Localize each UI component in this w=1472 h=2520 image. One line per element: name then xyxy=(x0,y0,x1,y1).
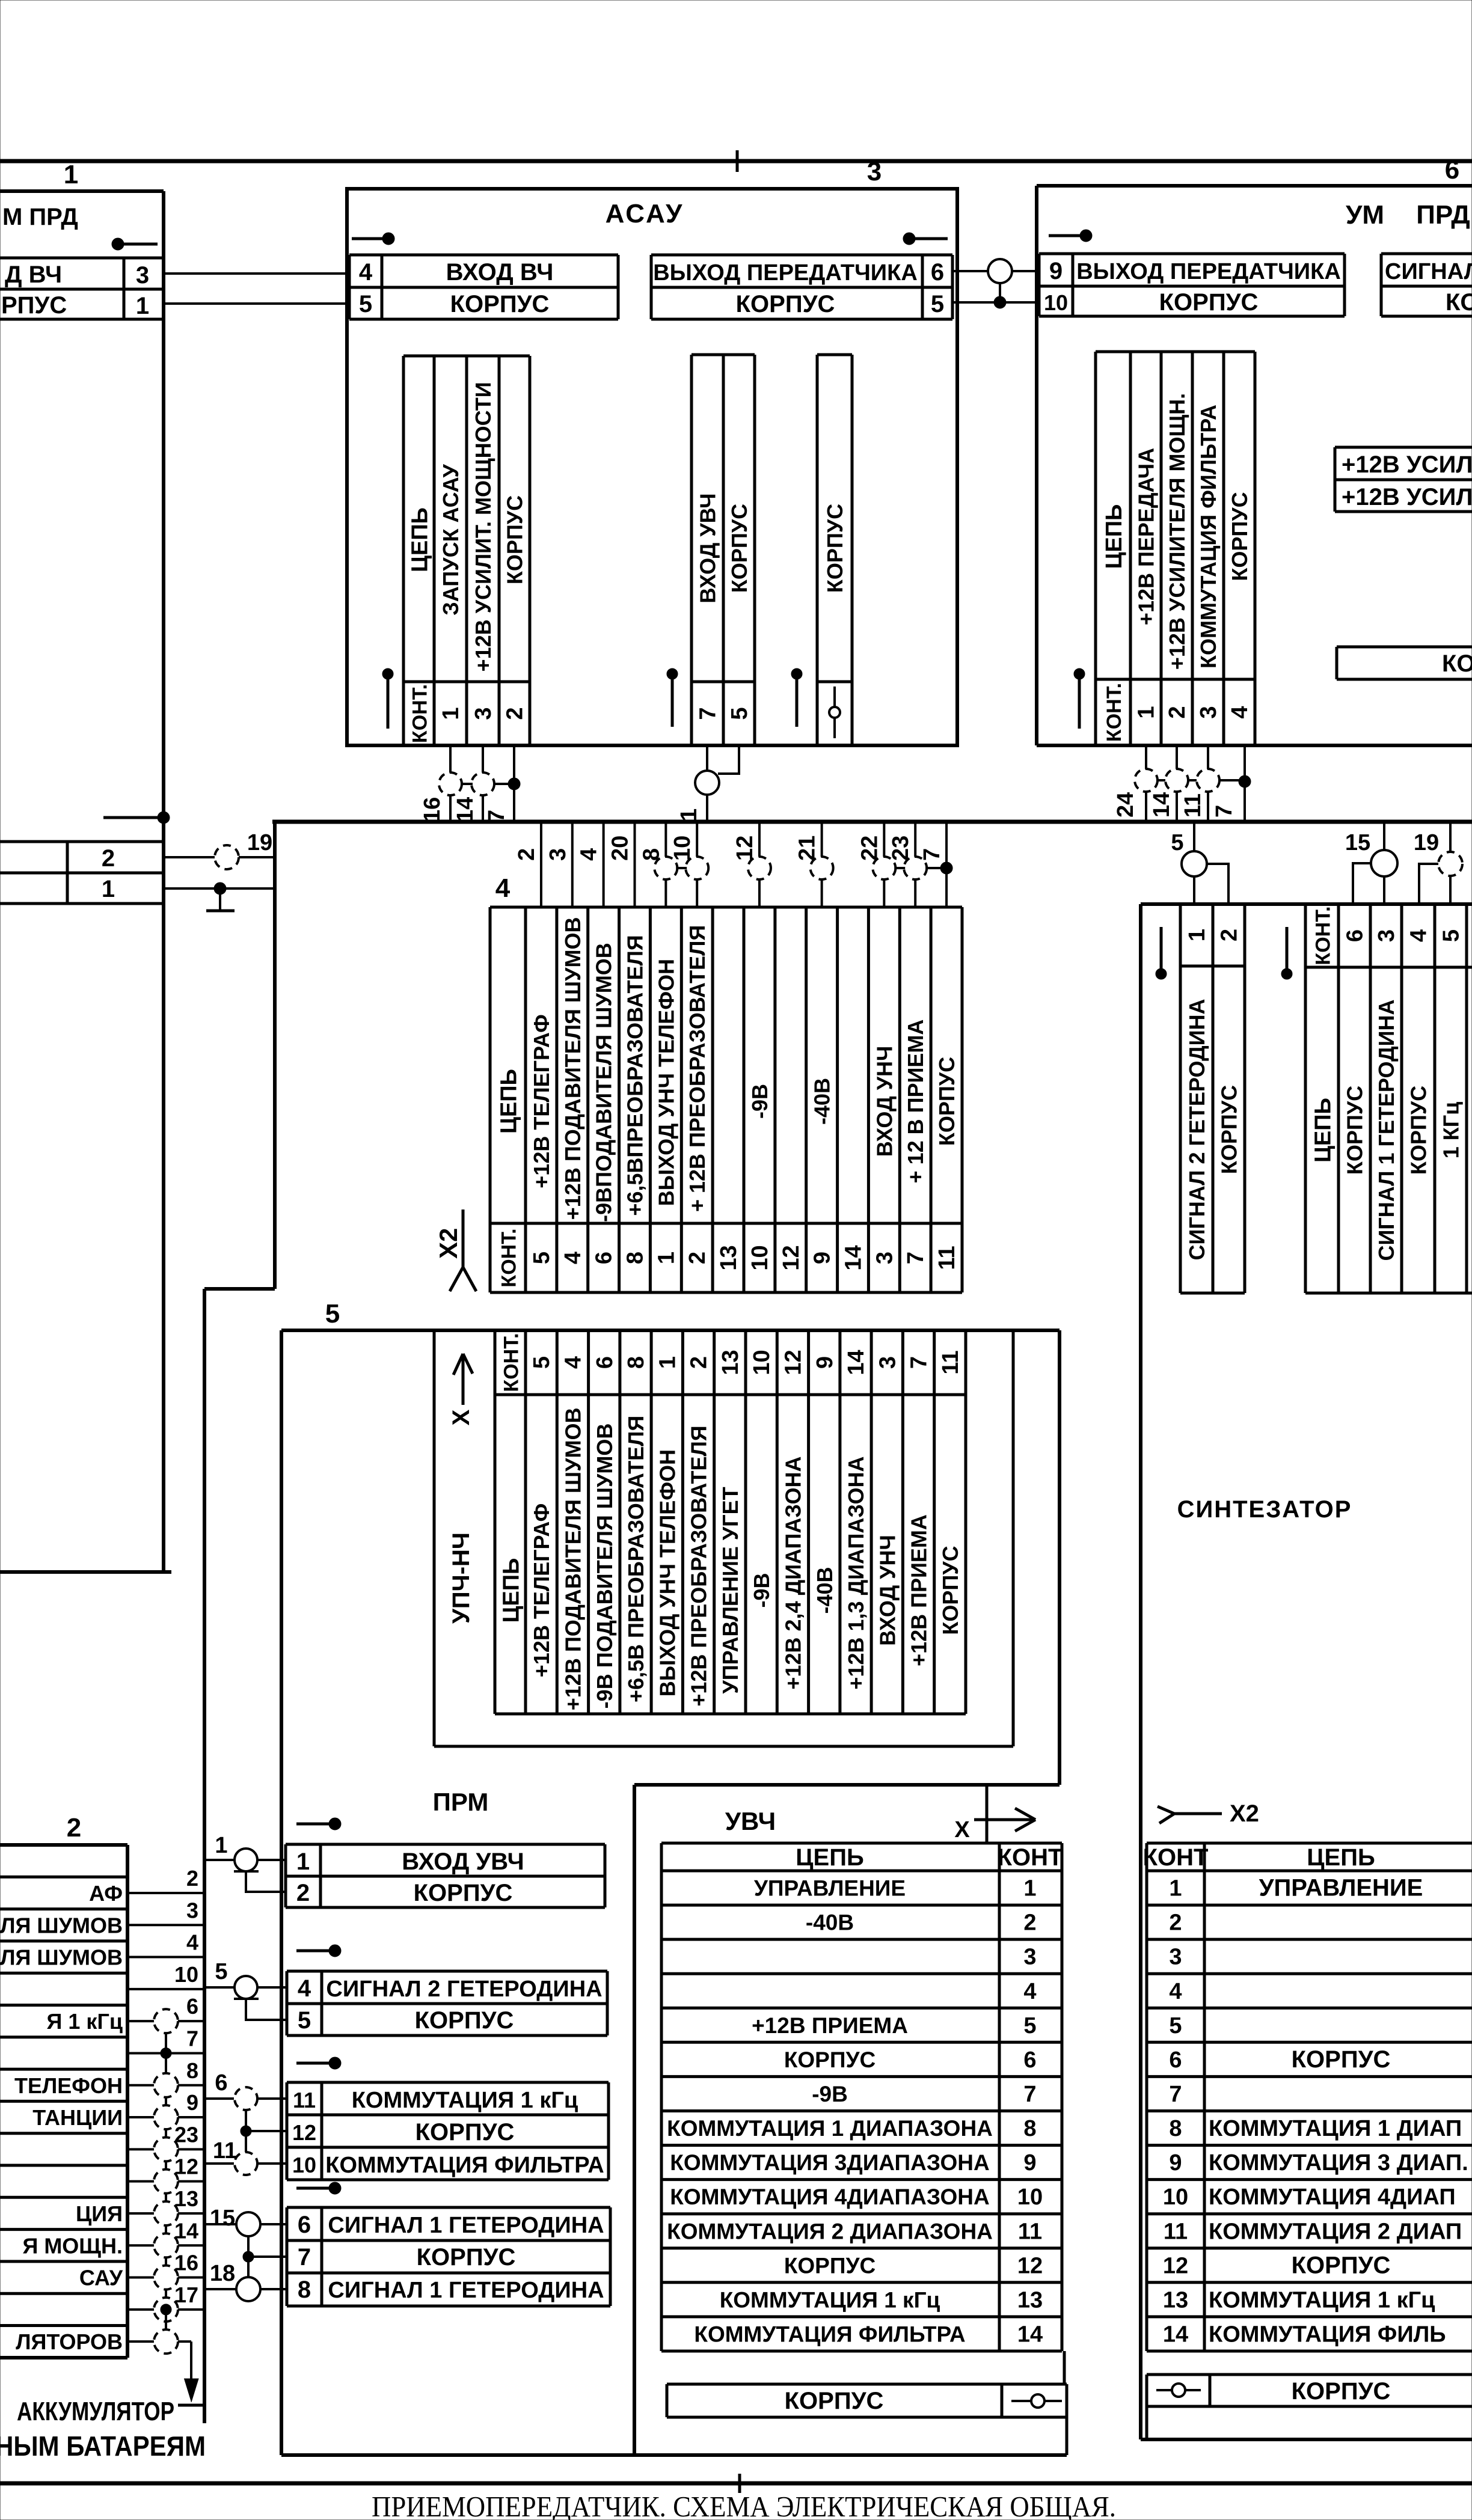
svg-text:6: 6 xyxy=(1445,155,1459,185)
svg-text:X: X xyxy=(448,1409,474,1425)
svg-text:9: 9 xyxy=(812,1356,838,1369)
svg-text:7: 7 xyxy=(919,848,945,861)
svg-text:18: 18 xyxy=(210,2261,235,2286)
wire ACAY pin6 to UM pin9 with connector circle xyxy=(952,270,988,272)
block 4 left edge lower xyxy=(203,1289,206,2423)
svg-text:НЫМ БАТАРЕЯМ: НЫМ БАТАРЕЯМ xyxy=(0,2430,206,2462)
svg-text:6: 6 xyxy=(1343,929,1368,942)
svg-text:24: 24 xyxy=(1113,792,1138,818)
block 1 lower connector rows xyxy=(0,840,164,843)
svg-text:1: 1 xyxy=(654,1252,679,1264)
svg-text:КОММУТАЦИЯ 1 кГц: КОММУТАЦИЯ 1 кГц xyxy=(720,2287,940,2312)
UVCH box left edge xyxy=(633,1785,636,2455)
svg-text:13: 13 xyxy=(1017,2287,1043,2313)
svg-text:13: 13 xyxy=(718,1350,743,1375)
svg-text:УВЧ: УВЧ xyxy=(725,1807,776,1835)
svg-text:КОРПУС: КОРПУС xyxy=(784,2047,876,2072)
svg-text:7: 7 xyxy=(1023,2082,1036,2107)
svg-text:КОРПУС: КОРПУС xyxy=(1159,289,1259,316)
svg-text:ВХОД УНЧ: ВХОД УНЧ xyxy=(872,1046,897,1157)
svg-text:ВЫХОД ПЕРЕДАТЧИКА: ВЫХОД ПЕРЕДАТЧИКА xyxy=(653,260,918,286)
svg-text:КОММУТАЦИЯ 2 ДИАП: КОММУТАЦИЯ 2 ДИАП xyxy=(1209,2219,1462,2244)
svg-text:-9В: -9В xyxy=(749,1573,774,1607)
svg-text:Д ВЧ: Д ВЧ xyxy=(5,261,62,288)
svg-text:КОРПУС: КОРПУС xyxy=(417,2244,516,2271)
bus wire 20 xyxy=(634,822,636,907)
svg-text:+12В ПРИЕМА: +12В ПРИЕМА xyxy=(907,1514,931,1666)
svg-text:КОММУТАЦИЯ ФИЛЬТРА: КОММУТАЦИЯ ФИЛЬТРА xyxy=(694,2322,965,2346)
svg-text:КОНТ: КОНТ xyxy=(1143,1844,1209,1871)
blk4 table frame xyxy=(490,906,962,909)
svg-text:3: 3 xyxy=(186,1898,198,1922)
svg-text:7: 7 xyxy=(1212,805,1237,818)
UVCH box corner xyxy=(986,1785,989,1843)
block2 accumulator wire xyxy=(165,2315,167,2329)
svg-text:10: 10 xyxy=(1044,290,1068,315)
block 1 outline xyxy=(0,189,164,193)
svg-text:КОММУТАЦИЯ 1 кГц: КОММУТАЦИЯ 1 кГц xyxy=(1209,2287,1435,2313)
svg-text:4: 4 xyxy=(495,873,511,903)
svg-text:14: 14 xyxy=(1163,2322,1188,2347)
svg-text:УМ: УМ xyxy=(1346,200,1384,230)
svg-text:+12В ПРЕОБРАЗОВАТЕЛЯ: +12В ПРЕОБРАЗОВАТЕЛЯ xyxy=(687,1425,711,1706)
svg-text:КОРПУС: КОРПУС xyxy=(416,2119,515,2145)
svg-text:13: 13 xyxy=(174,2186,198,2211)
svg-text:7: 7 xyxy=(186,2026,198,2051)
svg-text:КОРПУС: КОРПУС xyxy=(785,2388,884,2414)
synthB table frame xyxy=(1305,903,1467,906)
svg-text:5: 5 xyxy=(359,291,372,317)
svg-text:КОРПУС: КОРПУС xyxy=(1227,492,1252,581)
ACAY v2 cable mark xyxy=(667,668,678,679)
svg-text:КОММУТАЦИЯ ФИЛЬТРА: КОММУТАЦИЯ ФИЛЬТРА xyxy=(325,2153,604,2178)
svg-text:2: 2 xyxy=(1023,1910,1036,1936)
bus wire 8 xyxy=(664,822,667,907)
UM КОРПУС box (cut right) xyxy=(1337,646,1472,649)
svg-text:КОРПУС: КОРПУС xyxy=(736,291,835,317)
svg-text:КОНТ.: КОНТ. xyxy=(1312,906,1335,965)
svg-text:5: 5 xyxy=(931,291,944,317)
svg-text:ЦЕПЬ: ЦЕПЬ xyxy=(1311,1098,1336,1163)
svg-text:КОРПУС: КОРПУС xyxy=(1442,650,1472,677)
svg-text:14: 14 xyxy=(841,1245,866,1270)
svg-text:9: 9 xyxy=(810,1252,835,1264)
svg-text:1: 1 xyxy=(102,876,115,902)
svg-text:17: 17 xyxy=(174,2283,198,2307)
svg-text:13: 13 xyxy=(716,1245,741,1270)
UM +12V boxes (cut right) xyxy=(1335,446,1472,449)
PRM table 1 xyxy=(286,1843,605,1846)
svg-text:5: 5 xyxy=(727,707,752,720)
svg-text:КОРПУС: КОРПУС xyxy=(414,1880,513,1906)
svg-text:ЛЯТОРОВ: ЛЯТОРОВ xyxy=(16,2329,123,2354)
svg-text:1 КГц: 1 КГц xyxy=(1439,1102,1464,1159)
ACAY v1 table frame xyxy=(403,355,530,358)
block 5 outline right xyxy=(1058,1330,1061,1785)
svg-text:+12В УСИЛИ: +12В УСИЛИ xyxy=(1342,451,1472,478)
block2 wire 4 xyxy=(127,1956,204,1959)
svg-text:11: 11 xyxy=(213,2138,237,2164)
svg-text:+12В ПРИЕМА: +12В ПРИЕМА xyxy=(752,2013,908,2038)
svg-text:11: 11 xyxy=(1180,794,1206,818)
svg-text:УПРАВЛЕНИЕ: УПРАВЛЕНИЕ xyxy=(754,1876,906,1901)
PRM table 2 xyxy=(287,1970,607,1973)
svg-text:+12В ПЕРЕДАЧА: +12В ПЕРЕДАЧА xyxy=(1134,448,1159,625)
svg-text:11: 11 xyxy=(938,1350,963,1374)
svg-text:ВЫХОД УНЧ ТЕЛЕФОН: ВЫХОД УНЧ ТЕЛЕФОН xyxy=(655,1449,679,1696)
svg-text:1: 1 xyxy=(655,1356,680,1369)
svg-text:19: 19 xyxy=(1414,830,1439,855)
synth connector table xyxy=(1147,1842,1472,1845)
bus wire 2 xyxy=(540,822,542,907)
svg-text:СИГНАЛ 1 ГЕТЕРОДИНА: СИГНАЛ 1 ГЕТЕРОДИНА xyxy=(1374,999,1399,1261)
svg-text:КОММУТАЦИЯ 4ДИАПАЗОНА: КОММУТАЦИЯ 4ДИАПАЗОНА xyxy=(670,2185,990,2209)
UVCH KORPUS bottom box xyxy=(667,2383,1067,2386)
svg-text:КОРПУС: КОРПУС xyxy=(1343,1086,1367,1175)
svg-text:ЦЕПЬ: ЦЕПЬ xyxy=(408,507,433,572)
svg-text:АСАУ: АСАУ xyxy=(606,199,684,228)
svg-text:КОРПУС: КОРПУС xyxy=(1292,2378,1391,2405)
svg-text:КОНТ.: КОНТ. xyxy=(1103,683,1126,742)
svg-text:4: 4 xyxy=(1023,1979,1036,2004)
ACAY output table xyxy=(651,254,952,257)
svg-text:23: 23 xyxy=(174,2122,198,2147)
svg-text:5: 5 xyxy=(298,2007,311,2034)
svg-text:1: 1 xyxy=(1134,706,1159,718)
bus wire 22 xyxy=(883,822,885,907)
wire ACAY pin5 to UM pin10 xyxy=(952,301,1039,304)
synth KORPUS pin symbol xyxy=(1156,2389,1201,2391)
block2 wire 9 xyxy=(127,2116,204,2118)
svg-text:+12В ПОДАВИТЕЛЯ ШУМОВ: +12В ПОДАВИТЕЛЯ ШУМОВ xyxy=(560,1408,585,1711)
block2 wire 14 xyxy=(127,2244,204,2246)
UVCH connector table xyxy=(661,1842,1062,1845)
svg-text:7: 7 xyxy=(298,2244,311,2271)
svg-text:ЦЕПЬ: ЦЕПЬ xyxy=(796,1844,863,1871)
svg-text:12: 12 xyxy=(779,1245,804,1270)
PRM table 3 xyxy=(287,2081,609,2084)
svg-text:14: 14 xyxy=(1149,792,1174,818)
svg-text:5: 5 xyxy=(1023,2013,1036,2038)
svg-text:+ 12 В ПРИЕМА: + 12 В ПРИЕМА xyxy=(903,1020,928,1184)
svg-text:+6,5В ПРЕОБРАЗОВАТЕЛЯ: +6,5В ПРЕОБРАЗОВАТЕЛЯ xyxy=(624,1416,648,1702)
svg-text:+12В УСИЛИТ. МОЩНОСТИ: +12В УСИЛИТ. МОЩНОСТИ xyxy=(471,382,495,671)
svg-text:-40В: -40В xyxy=(812,1567,837,1613)
svg-text:2: 2 xyxy=(685,1252,710,1264)
synthB extra col border xyxy=(1467,903,1472,906)
svg-text:+12В УСИЛ: +12В УСИЛ xyxy=(1342,484,1472,510)
svg-text:2: 2 xyxy=(1165,706,1190,718)
svg-text:КОРПУС: КОРПУС xyxy=(1217,1085,1242,1174)
svg-text:3: 3 xyxy=(875,1356,900,1369)
PRM cable mark 4 xyxy=(296,2187,331,2190)
svg-text:7: 7 xyxy=(903,1252,928,1264)
svg-text:КОРПУС: КОРПУС xyxy=(503,495,527,584)
svg-text:1: 1 xyxy=(296,1849,310,1875)
svg-text:КОНТ: КОНТ xyxy=(998,1844,1063,1871)
svg-text:9: 9 xyxy=(1169,2150,1182,2176)
svg-text:11: 11 xyxy=(293,2088,316,2112)
svg-text:-9В: -9В xyxy=(747,1084,772,1119)
svg-text:КОНТ.: КОНТ. xyxy=(500,1333,523,1392)
ACAY v3 cable mark xyxy=(791,668,802,679)
svg-text:5: 5 xyxy=(1439,929,1464,942)
svg-text:ВХОД УНЧ: ВХОД УНЧ xyxy=(875,1535,900,1646)
svg-text:ВХОД УВЧ: ВХОД УВЧ xyxy=(696,493,720,603)
svg-text:ПРМ: ПРМ xyxy=(433,1788,489,1816)
svg-text:1: 1 xyxy=(1185,929,1210,941)
block 5 inner bottom edge xyxy=(634,1783,1060,1787)
block2 wire 12 xyxy=(127,2180,204,2183)
svg-text:ТАНЦИИ: ТАНЦИИ xyxy=(32,2105,123,2130)
UM drop wire 24 xyxy=(1145,745,1147,769)
svg-text:4: 4 xyxy=(577,848,602,861)
UM drop ties xyxy=(1158,779,1165,781)
svg-text:УПЧ-НЧ: УПЧ-НЧ xyxy=(448,1532,474,1624)
svg-text:10: 10 xyxy=(1163,2185,1188,2210)
ACAY cable mark left xyxy=(352,237,385,240)
svg-text:14: 14 xyxy=(453,797,478,822)
svg-text:8: 8 xyxy=(1169,2116,1182,2141)
svg-text:4: 4 xyxy=(560,1356,586,1369)
svg-text:9: 9 xyxy=(186,2090,198,2115)
block 5 bottom edge xyxy=(281,2453,1067,2457)
svg-text:10: 10 xyxy=(174,1962,198,1987)
svg-text:5: 5 xyxy=(215,1959,227,1984)
svg-text:КОРПУС: КОРПУС xyxy=(934,1057,959,1146)
block2 wire 10 xyxy=(127,1988,204,1990)
svg-text:23: 23 xyxy=(888,836,913,861)
UM right table СИГНАЛ (cut) xyxy=(1381,252,1472,255)
svg-text:1: 1 xyxy=(1169,1876,1182,1901)
svg-text:12: 12 xyxy=(732,836,758,861)
svg-text:3: 3 xyxy=(1023,1945,1036,1970)
svg-text:15: 15 xyxy=(210,2206,235,2231)
bus wire 3 xyxy=(571,822,574,907)
bus wire 12 xyxy=(758,822,761,907)
svg-text:-40В: -40В xyxy=(810,1078,835,1125)
ACAY input table xyxy=(349,254,618,257)
PRM cable mark 1 xyxy=(296,1823,331,1826)
svg-text:КОММУТАЦИЯ ФИЛЬ: КОММУТАЦИЯ ФИЛЬ xyxy=(1209,2322,1446,2347)
svg-text:15: 15 xyxy=(1345,830,1370,855)
svg-text:10: 10 xyxy=(749,1350,774,1375)
ACAY v3 pin circle symbol xyxy=(833,687,836,738)
svg-text:КОРПУС: КОРПУС xyxy=(727,504,752,593)
svg-text:ВХОД ВЧ: ВХОД ВЧ xyxy=(446,259,554,286)
top frame line xyxy=(0,159,1472,164)
svg-text:5: 5 xyxy=(1169,2013,1182,2038)
svg-text:5: 5 xyxy=(1171,830,1183,855)
svg-text:1: 1 xyxy=(676,809,702,821)
svg-text:14: 14 xyxy=(174,2218,198,2243)
svg-text:14: 14 xyxy=(844,1350,869,1375)
svg-text:10: 10 xyxy=(292,2153,316,2177)
svg-text:+12В ТЕЛЕГРАФ: +12В ТЕЛЕГРАФ xyxy=(529,1014,554,1188)
svg-text:4: 4 xyxy=(186,1930,198,1955)
svg-text:ВХОД УВЧ: ВХОД УВЧ xyxy=(402,1849,524,1875)
svg-text:4: 4 xyxy=(1406,929,1432,942)
block2 wire 7 xyxy=(127,2052,204,2054)
UM v table frame xyxy=(1096,350,1255,353)
svg-text:12: 12 xyxy=(1017,2253,1043,2278)
block2 wire 2 xyxy=(127,1892,204,1894)
UM v cable mark xyxy=(1074,668,1085,679)
block2 chain dots xyxy=(161,2047,171,2058)
svg-text:КОММУТАЦИЯ 1 ДИАПАЗОНА: КОММУТАЦИЯ 1 ДИАПАЗОНА xyxy=(667,2116,993,2141)
svg-text:X: X xyxy=(954,1817,970,1843)
svg-text:6: 6 xyxy=(592,1356,618,1369)
svg-text:СИГНАЛ 2 ГЕТЕРОДИНА: СИГНАЛ 2 ГЕТЕРОДИНА xyxy=(1185,999,1209,1260)
svg-text:11: 11 xyxy=(1018,2219,1042,2244)
svg-text:КОРПУС: КОРПУС xyxy=(1406,1086,1431,1175)
block 5 outline top xyxy=(281,1329,1060,1332)
svg-text:КОРПУС: КОРПУС xyxy=(784,2253,876,2278)
svg-text:ЦЕПЬ: ЦЕПЬ xyxy=(499,1558,524,1623)
bus wire 10 xyxy=(696,822,698,907)
ACAY drop wire 14 xyxy=(482,745,484,773)
svg-text:СИГНАЛ: СИГНАЛ xyxy=(1385,259,1472,284)
block 4 bus top edge xyxy=(272,820,1472,824)
svg-text:1: 1 xyxy=(136,293,149,319)
UM output table xyxy=(1039,252,1345,255)
svg-text:8: 8 xyxy=(186,2058,198,2083)
svg-text:+6,5ВПРЕОБРАЗОВАТЕЛЯ: +6,5ВПРЕОБРАЗОВАТЕЛЯ xyxy=(623,935,648,1216)
ACAY v3 table frame xyxy=(817,353,852,356)
svg-text:12: 12 xyxy=(780,1350,806,1375)
svg-text:2: 2 xyxy=(67,1813,81,1843)
svg-text:8: 8 xyxy=(624,1356,649,1369)
block 3 АСАУ outline xyxy=(347,189,957,745)
svg-text:СИНТЕЗАТОР: СИНТЕЗАТОР xyxy=(1177,1496,1352,1523)
svg-text:2: 2 xyxy=(687,1356,712,1369)
bus wire 4 xyxy=(603,822,605,907)
svg-text:2: 2 xyxy=(186,1866,198,1891)
svg-text:2: 2 xyxy=(503,707,528,720)
svg-text:1: 1 xyxy=(64,160,78,189)
svg-text:10: 10 xyxy=(670,836,695,861)
UM cable mark xyxy=(1049,234,1082,237)
synthB cable mark xyxy=(1286,927,1289,969)
svg-text:ПРД: ПРД xyxy=(1416,200,1470,230)
ACAY cable mark right xyxy=(903,233,915,245)
svg-text:9: 9 xyxy=(1049,258,1063,284)
svg-text:КОММУТАЦИЯ 1 ДИАП: КОММУТАЦИЯ 1 ДИАП xyxy=(1209,2116,1462,2141)
svg-text:КОРПУС: КОРПУС xyxy=(823,504,847,593)
bottom frame line xyxy=(0,2482,1472,2486)
ACAY v1 cable mark xyxy=(382,668,393,679)
ACAY drop wire 7 xyxy=(513,745,515,822)
svg-text:4: 4 xyxy=(359,259,373,286)
block2 wire 23 xyxy=(127,2148,204,2150)
block2 wire 13 xyxy=(127,2212,204,2215)
synth KORPUS bottom box xyxy=(1147,2373,1472,2376)
svg-text:Я МОЩН.: Я МОЩН. xyxy=(22,2233,123,2258)
svg-text:3: 3 xyxy=(867,157,882,186)
svg-text:+12В УСИЛИТЕЛЯ МОЩН.: +12В УСИЛИТЕЛЯ МОЩН. xyxy=(1165,393,1189,670)
svg-text:6: 6 xyxy=(298,2212,311,2238)
svg-text:КОНТ.: КОНТ. xyxy=(409,684,432,743)
svg-text:19: 19 xyxy=(247,830,272,855)
svg-text:КОММУТАЦИЯ 2 ДИАПАЗОНА: КОММУТАЦИЯ 2 ДИАПАЗОНА xyxy=(667,2219,993,2243)
svg-text:ПРИЕМОПЕРЕДАТЧИК. СХЕМА ЭЛЕК: ПРИЕМОПЕРЕДАТЧИК. СХЕМА ЭЛЕКТРИЧЕСКАЯ ОБ… xyxy=(372,2490,1116,2520)
svg-text:1: 1 xyxy=(1023,1876,1036,1901)
svg-text:3: 3 xyxy=(872,1252,897,1264)
svg-text:3: 3 xyxy=(1374,929,1399,942)
svg-text:13: 13 xyxy=(1163,2287,1188,2313)
ACAY drop wire 1 with circle xyxy=(706,745,708,771)
svg-text:КОРПУС: КОРПУС xyxy=(415,2007,514,2034)
svg-text:ВЫХОД ПЕРЕДАТЧИКА: ВЫХОД ПЕРЕДАТЧИКА xyxy=(1076,259,1341,284)
svg-text:10: 10 xyxy=(1017,2185,1043,2210)
svg-text:АККУМУЛЯТОР: АККУМУЛЯТОР xyxy=(17,2397,174,2426)
block2 wire 17 xyxy=(127,2308,204,2311)
svg-text:X2: X2 xyxy=(1230,1800,1259,1827)
svg-text:12: 12 xyxy=(1163,2253,1188,2278)
bus wire 21 xyxy=(821,822,823,907)
svg-text:3: 3 xyxy=(1196,706,1221,718)
svg-text:-9В: -9В xyxy=(812,2082,848,2106)
svg-text:2: 2 xyxy=(1217,929,1242,941)
svg-text:КОММУТАЦИЯ 3 ДИАП.: КОММУТАЦИЯ 3 ДИАП. xyxy=(1209,2150,1468,2176)
synthA table frame xyxy=(1180,903,1245,906)
svg-text:1: 1 xyxy=(438,707,464,720)
block 2 outline xyxy=(0,1843,127,1847)
svg-text:20: 20 xyxy=(608,836,633,861)
block2 wire 3 xyxy=(127,1924,204,1926)
svg-text:6: 6 xyxy=(215,2070,227,2096)
svg-text:+12В 2,4 ДИАПАЗОНА: +12В 2,4 ДИАПАЗОНА xyxy=(780,1457,805,1690)
block 1 connector table xyxy=(0,257,164,260)
UVCH KORPUS pin symbol xyxy=(1011,2400,1062,2402)
svg-text:М ПРД: М ПРД xyxy=(2,204,78,230)
svg-text:ЦЕПЬ: ЦЕПЬ xyxy=(497,1069,522,1134)
svg-text:5: 5 xyxy=(325,1299,340,1329)
svg-text:+12В ТЕЛЕГРАФ: +12В ТЕЛЕГРАФ xyxy=(529,1503,554,1677)
svg-text:5: 5 xyxy=(529,1356,554,1369)
svg-text:6: 6 xyxy=(931,259,944,286)
svg-text:Я 1 кГц: Я 1 кГц xyxy=(47,2009,123,2034)
PRM table 4 xyxy=(287,2206,610,2209)
synth X2 symbol xyxy=(1158,1806,1174,1814)
bus wire 23 xyxy=(914,822,916,907)
fold tick top xyxy=(736,150,739,172)
synthesizer block outline xyxy=(1139,904,1142,2439)
block2 chain links xyxy=(165,2033,167,2073)
wire block1 pin1 to ACAY pin5 xyxy=(164,302,349,305)
svg-text:ЗАПУСК АСАУ: ЗАПУСК АСАУ xyxy=(438,464,463,616)
block2 wire 6 xyxy=(127,2020,204,2022)
svg-text:КОРПУС: КОРПУС xyxy=(450,291,550,317)
svg-text:ТЕЛЕФОН: ТЕЛЕФОН xyxy=(14,2073,123,2098)
svg-text:КОРПУС: КОРПУС xyxy=(1446,289,1472,316)
block2 wire 8 xyxy=(127,2084,204,2087)
svg-text:4: 4 xyxy=(298,1975,311,2002)
UPCH-NCH inner box xyxy=(433,1330,436,1746)
svg-text:УПРАВЛЕНИЕ УГЕТ: УПРАВЛЕНИЕ УГЕТ xyxy=(718,1487,743,1693)
wire from block1 pin1 with ground xyxy=(164,887,275,890)
svg-text:СИГНАЛ 1 ГЕТЕРОДИНА: СИГНАЛ 1 ГЕТЕРОДИНА xyxy=(328,2278,604,2303)
UM drop wire 7 xyxy=(1244,745,1246,822)
svg-text:11: 11 xyxy=(934,1246,960,1270)
PRM cable mark 2 xyxy=(296,1950,331,1953)
bus wire 7 xyxy=(945,822,948,907)
svg-text:КОММУТАЦИЯ 3ДИАПАЗОНА: КОММУТАЦИЯ 3ДИАПАЗОНА xyxy=(670,2150,990,2175)
block 4 left edge upper xyxy=(273,822,277,1289)
svg-text:-9ВПОДАВИТЕЛЯ ШУМОВ: -9ВПОДАВИТЕЛЯ ШУМОВ xyxy=(592,943,616,1222)
svg-text:2: 2 xyxy=(514,848,539,861)
svg-text:3: 3 xyxy=(1169,1945,1182,1970)
